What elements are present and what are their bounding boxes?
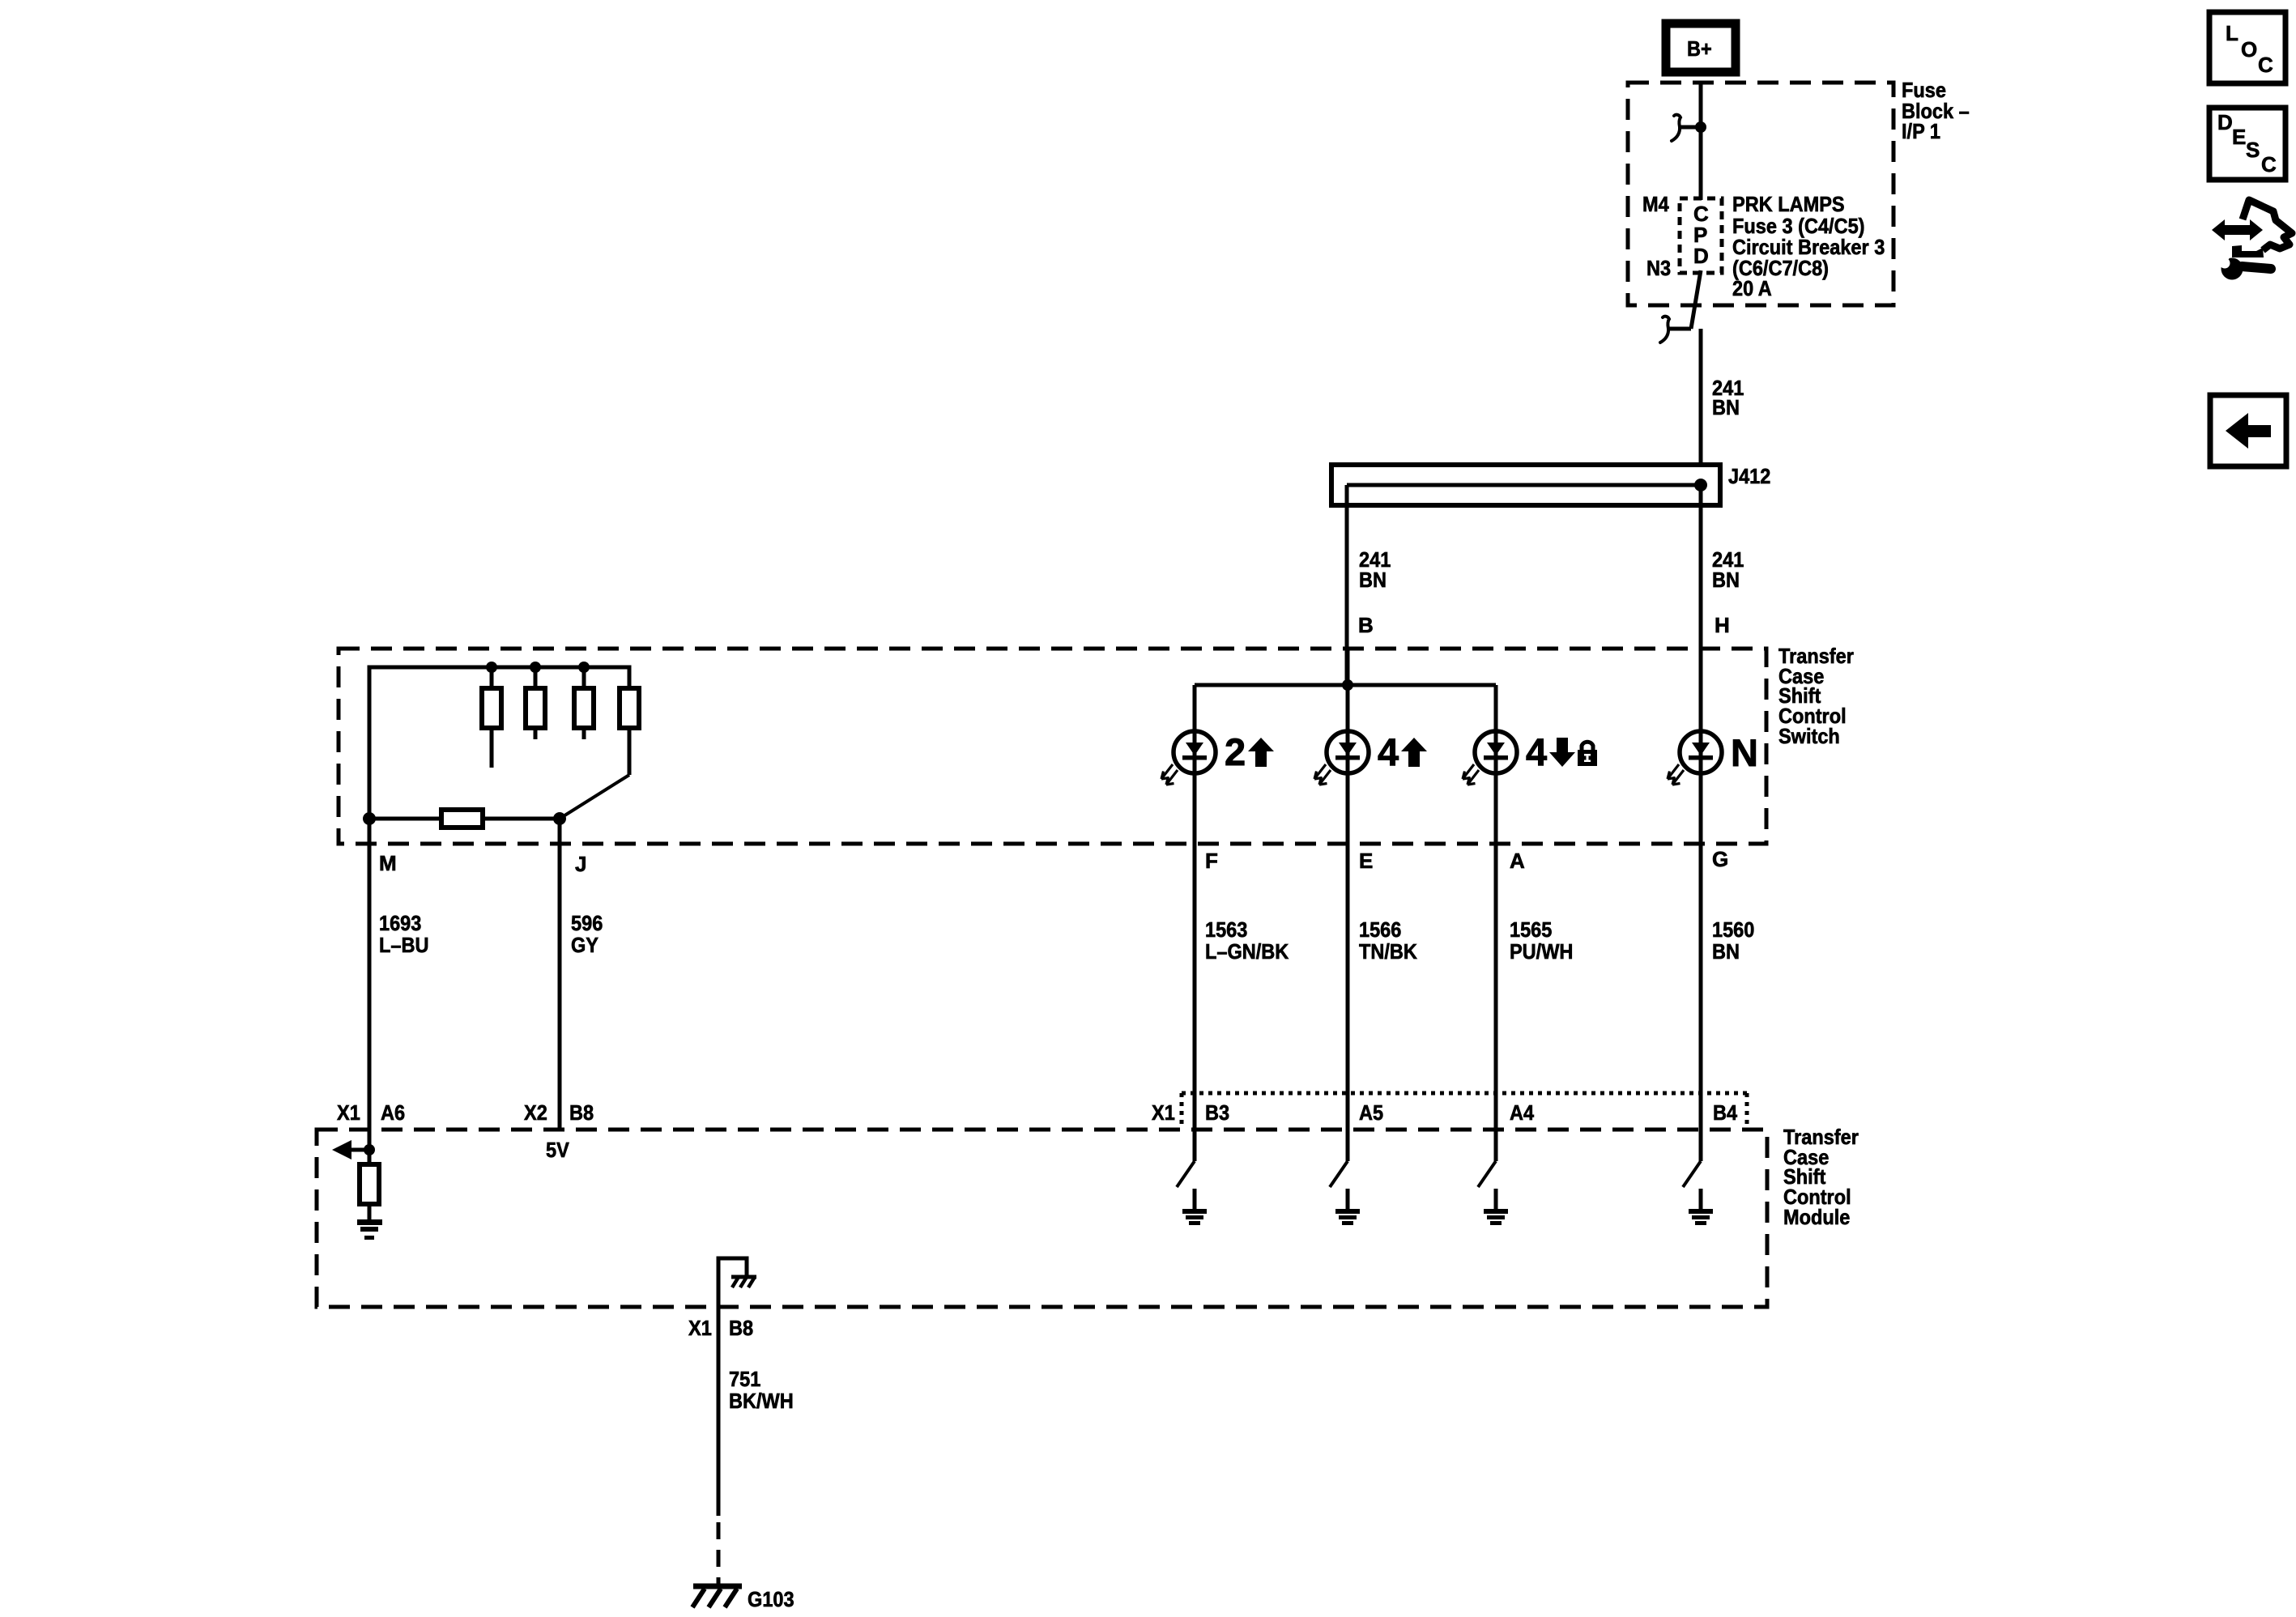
switch S3 and ground	[1478, 1161, 1508, 1225]
svg-text:596: 596	[571, 911, 603, 935]
svg-text:1560: 1560	[1712, 917, 1754, 942]
node dot LED bus	[1342, 679, 1353, 691]
resistor R2	[526, 667, 545, 739]
label 1566 TN/BK	[1359, 917, 1417, 964]
label 2 up	[1225, 730, 1274, 773]
svg-text:L: L	[2226, 21, 2238, 45]
switch internal top wire	[369, 667, 629, 819]
wire LED1 drop	[1193, 685, 1197, 1161]
svg-text:4: 4	[1526, 730, 1547, 773]
svg-text:BN: BN	[1712, 395, 1740, 419]
node dot R3	[578, 662, 590, 673]
wire dashed to G103	[717, 1522, 721, 1584]
svg-text:B8: B8	[729, 1316, 753, 1340]
fuse block dashed box	[1628, 83, 1893, 305]
node dot M	[363, 812, 376, 825]
label 1560 BN	[1712, 917, 1754, 964]
svg-text:M: M	[379, 851, 397, 875]
LED bus wire	[1195, 683, 1496, 687]
wire M down	[368, 819, 372, 1150]
resistor R3	[574, 667, 594, 739]
svg-text:B+: B+	[1687, 36, 1712, 61]
label 241 BN right	[1712, 547, 1744, 592]
label 241 BN left	[1359, 547, 1391, 592]
icon back arrow	[2210, 395, 2286, 466]
svg-text:X1: X1	[688, 1316, 712, 1340]
svg-text:1565: 1565	[1510, 917, 1552, 942]
svg-text:A5: A5	[1359, 1100, 1383, 1125]
icon shift-adjust with wrench	[2212, 200, 2292, 280]
svg-text:A4: A4	[1510, 1100, 1535, 1125]
svg-text:BN: BN	[1712, 939, 1740, 964]
svg-text:B3: B3	[1205, 1100, 1229, 1125]
svg-text:G103: G103	[748, 1587, 794, 1611]
svg-text:H: H	[1715, 613, 1730, 637]
connector hook J2 below fuse block	[1660, 317, 1691, 343]
svg-text:B8: B8	[569, 1100, 594, 1125]
svg-text:751: 751	[729, 1367, 760, 1391]
resistor R5 horizontal	[441, 810, 483, 828]
svg-text:Switch: Switch	[1778, 724, 1840, 748]
svg-text:J: J	[575, 852, 586, 876]
node dot R2	[530, 662, 541, 673]
label PRK LAMPS fuse details	[1732, 192, 1885, 300]
svg-text:A: A	[1510, 849, 1525, 873]
svg-text:2: 2	[1225, 730, 1246, 773]
svg-text:M4: M4	[1642, 192, 1669, 216]
LED D3 4LO lock	[1463, 731, 1517, 785]
node dot R1	[486, 662, 497, 673]
svg-text:BN: BN	[1359, 568, 1387, 592]
wire R4 diagonal	[560, 775, 629, 819]
LED D2 4HI	[1314, 731, 1369, 785]
wire J412 right leg	[1699, 485, 1703, 1161]
lock icon	[1578, 742, 1597, 766]
svg-text:1693: 1693	[379, 911, 421, 935]
svg-text:B4: B4	[1713, 1100, 1738, 1125]
svg-text:X1: X1	[1152, 1100, 1175, 1125]
wire LED3 drop	[1494, 685, 1498, 1161]
connector hook J1 inside fuse block	[1672, 115, 1706, 141]
svg-text:X1: X1	[337, 1100, 360, 1125]
svg-text:E: E	[1359, 849, 1373, 873]
label 1565 PU/WH	[1510, 917, 1573, 964]
svg-text:5V: 5V	[546, 1138, 569, 1162]
svg-text:L–GN/BK: L–GN/BK	[1205, 939, 1289, 964]
ground G103	[692, 1586, 742, 1607]
wire J down	[558, 819, 562, 1130]
battery terminal B+	[1666, 23, 1736, 72]
svg-text:PU/WH: PU/WH	[1510, 939, 1573, 964]
svg-text:Module: Module	[1783, 1205, 1850, 1229]
wire B to LED bus	[1346, 649, 1350, 685]
signal arrow left	[332, 1140, 369, 1160]
label Transfer Case Shift Control Module	[1783, 1125, 1859, 1229]
label 751 BK/WH	[729, 1367, 794, 1413]
svg-text:BK/WH: BK/WH	[729, 1389, 794, 1413]
ground module resistor	[357, 1219, 382, 1240]
svg-text:L–BU: L–BU	[379, 933, 429, 957]
switch S1 and ground	[1177, 1161, 1207, 1225]
label Transfer Case Shift Control Switch	[1778, 644, 1854, 748]
svg-text:1563: 1563	[1205, 917, 1247, 942]
svg-text:C: C	[2261, 152, 2277, 177]
resistor R1	[482, 667, 501, 768]
wire fuse output slant	[1691, 270, 1701, 329]
label 241 BN upper	[1712, 376, 1744, 419]
wire 751 BK/WH	[717, 1307, 721, 1516]
wire B+ to fuse	[1699, 81, 1703, 200]
switch S4 and ground	[1683, 1161, 1713, 1225]
node dot J	[553, 812, 566, 825]
svg-text:S: S	[2246, 138, 2260, 162]
label 4 down	[1526, 730, 1575, 773]
label 4 up	[1378, 730, 1427, 773]
label 1693 L-BU	[379, 911, 429, 957]
svg-text:I/P 1: I/P 1	[1902, 119, 1940, 143]
label 1563 L-GN/BK	[1205, 917, 1289, 964]
node dot module input	[364, 1144, 375, 1155]
svg-text:F: F	[1205, 849, 1218, 873]
svg-text:20 A: 20 A	[1732, 276, 1772, 300]
svg-text:BN: BN	[1712, 568, 1740, 592]
CPD fuse/breaker box	[1680, 198, 1722, 273]
transfer case shift control module dashed box	[317, 1130, 1767, 1307]
svg-text:1566: 1566	[1359, 917, 1401, 942]
resistor R4	[620, 688, 639, 775]
icon DESC	[2209, 108, 2285, 180]
connector X1 dotted strip	[1182, 1093, 1747, 1128]
svg-text:GY: GY	[571, 933, 598, 957]
svg-text:G: G	[1712, 847, 1728, 871]
svg-text:J412: J412	[1728, 464, 1770, 488]
svg-text:PRK LAMPS: PRK LAMPS	[1732, 192, 1845, 216]
svg-text:D: D	[1693, 244, 1709, 268]
label 596 GY	[571, 911, 603, 957]
wire LED2 drop	[1346, 685, 1350, 1161]
internal chassis ground	[718, 1258, 756, 1307]
svg-text:D: D	[2217, 110, 2233, 134]
transfer case shift control switch dashed box	[339, 649, 1766, 844]
LED D4 N	[1668, 731, 1722, 785]
switch S2 and ground	[1330, 1161, 1360, 1225]
svg-text:N3: N3	[1646, 256, 1671, 280]
svg-text:4: 4	[1378, 730, 1399, 773]
switch lower wire right	[483, 817, 560, 821]
svg-text:TN/BK: TN/BK	[1359, 939, 1417, 964]
svg-text:E: E	[2232, 125, 2246, 149]
svg-text:A6: A6	[381, 1100, 405, 1125]
wire J412 left leg	[1345, 485, 1349, 685]
label Fuse Block I/P 1	[1902, 78, 1970, 143]
icon LOC	[2209, 12, 2285, 83]
wire 241 BN to J412	[1699, 329, 1703, 465]
switch lower wire left	[369, 817, 441, 821]
svg-text:B: B	[1358, 613, 1374, 637]
svg-text:X2: X2	[524, 1100, 547, 1125]
svg-text:N: N	[1731, 731, 1758, 774]
splice pack J412	[1331, 465, 1720, 505]
svg-text:O: O	[2241, 37, 2257, 62]
resistor R6 module	[360, 1150, 379, 1219]
svg-text:C: C	[2258, 53, 2273, 77]
LED D1 2HI	[1161, 731, 1216, 785]
